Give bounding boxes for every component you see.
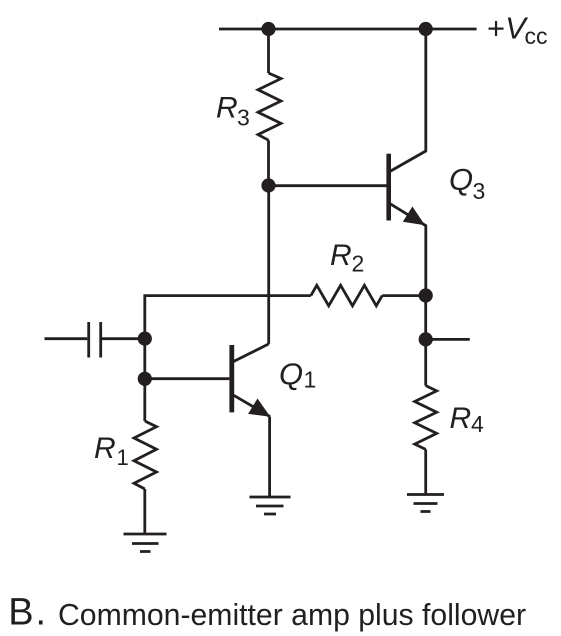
svg-text:+V: +V — [487, 10, 529, 45]
svg-text:cc: cc — [525, 23, 548, 49]
svg-text:R: R — [94, 432, 116, 465]
svg-text:R: R — [450, 402, 472, 435]
svg-text:Common-emitter amp plus follow: Common-emitter amp plus follower — [58, 599, 526, 632]
svg-text:3: 3 — [473, 178, 486, 204]
svg-text:R: R — [330, 239, 352, 272]
svg-text:2: 2 — [352, 251, 365, 277]
svg-text:Q: Q — [279, 356, 303, 391]
svg-text:3: 3 — [237, 105, 250, 131]
svg-text:R: R — [216, 92, 238, 125]
svg-text:1: 1 — [117, 445, 129, 470]
svg-text:4: 4 — [471, 411, 484, 437]
svg-text:Q: Q — [449, 162, 473, 197]
svg-text:1: 1 — [304, 366, 317, 392]
svg-text:B.: B. — [8, 592, 48, 634]
